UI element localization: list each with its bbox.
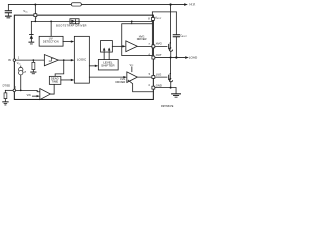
wire UV to LOGIC	[63, 41, 71, 43]
pin 7 HVG square	[152, 45, 155, 48]
op-amp HVG driver	[126, 41, 138, 52]
wire OUT	[153, 57, 185, 59]
node buffer out	[63, 59, 65, 61]
node rail-vcc	[34, 20, 36, 22]
ground (DT resistor)	[3, 101, 8, 103]
arrow LOAD	[185, 56, 189, 59]
svg-text:DRIVER: DRIVER	[115, 80, 125, 84]
wire HVG	[137, 45, 167, 47]
ground (IN pulldown)	[31, 71, 36, 73]
pin 6 OUT square	[152, 56, 155, 59]
svg-text:TIME: TIME	[51, 79, 58, 83]
transistor M1 high-side	[170, 5, 172, 44]
svg-text:LOAD: LOAD	[189, 55, 198, 59]
wire DT/SD	[5, 89, 13, 91]
wire dead time to LOGIC	[61, 79, 72, 81]
wire UV feed	[50, 21, 52, 36]
resistor DT external	[4, 90, 6, 93]
svg-text:GND: GND	[156, 83, 162, 87]
svg-text:LVG: LVG	[156, 73, 161, 77]
wire Vcc pin drop	[34, 5, 36, 22]
buffer input comparator (schmitt)	[44, 55, 58, 66]
wire VBOOT pin	[151, 12, 153, 24]
inner floating-well rectangle	[122, 24, 153, 56]
wire level shifter pulse lines	[103, 49, 105, 60]
svg-text:OUT: OUT	[156, 53, 162, 57]
arrow HV	[184, 3, 188, 6]
svg-text:DRIVER: DRIVER	[137, 37, 147, 41]
node IN-pulldown	[32, 59, 34, 61]
wire to comparator top input	[37, 90, 40, 91]
wire Vcc stub LVG driver	[131, 67, 133, 72]
svg-text:LOGIC: LOGIC	[77, 57, 87, 61]
wire LVG	[137, 76, 167, 78]
wire VTH reference input	[32, 95, 37, 97]
svg-text:D97IN547E: D97IN547E	[161, 105, 174, 108]
IC boundary	[14, 15, 153, 99]
ground (zener)	[29, 41, 34, 43]
pin 2 VCC square	[34, 14, 37, 17]
current source 50uA	[20, 66, 22, 67]
svg-text:VIN: VIN	[27, 94, 31, 97]
capacitor Vcc decoupling	[7, 5, 9, 11]
node OUT mosfet	[170, 57, 172, 59]
svg-text:DT/SD: DT/SD	[3, 85, 11, 88]
node DT/SD current source	[20, 89, 22, 91]
DT/SD input terminal	[13, 89, 16, 92]
wire LOGIC to LVG driver	[89, 76, 124, 78]
wire GND	[153, 87, 176, 89]
node rail-uv	[50, 20, 52, 22]
svg-text:H.V.: H.V.	[190, 3, 196, 7]
wire LOGIC to LEVEL SHIFTER	[89, 65, 95, 67]
node HV junction	[169, 3, 171, 5]
svg-text:BOOTSTRAP DRIVER: BOOTSTRAP DRIVER	[56, 24, 87, 27]
wire buffer to dead time	[55, 60, 64, 76]
zener clamp diode	[30, 34, 34, 36]
svg-text:HVG: HVG	[156, 42, 162, 46]
ground (left cap)	[6, 15, 12, 17]
node OUT cboot	[175, 56, 177, 58]
transistor M2 low-side	[170, 58, 172, 74]
DEAD TIME block	[49, 76, 61, 84]
pin 8 VBOOT square	[151, 18, 154, 21]
wire bootstrap out	[79, 20, 152, 22]
wire latch to HVG driver	[112, 45, 123, 47]
resistor IN pulldown	[32, 60, 34, 62]
wire zener branch	[30, 21, 32, 34]
LEVEL SHIFTER block	[98, 59, 118, 70]
ground (power)	[172, 93, 181, 95]
wire IN	[16, 59, 45, 61]
wire to ground	[175, 88, 177, 94]
latch block	[101, 41, 113, 53]
BOOTSTRAP DRIVER block	[70, 19, 79, 24]
resistor Rsupply	[71, 3, 81, 6]
diode bootstrap	[70, 20, 79, 22]
wire buffer out	[58, 59, 71, 61]
node floating rail	[131, 20, 133, 22]
pin 5 LVG square	[152, 76, 155, 79]
comparator shutdown	[40, 89, 51, 100]
hysteresis glyph	[49, 58, 54, 61]
UV DETECTION block	[39, 36, 63, 46]
wire LVG driver gnd return	[128, 80, 153, 92]
wire comparator out to dead time	[50, 84, 54, 94]
wire internal Vcc rail	[31, 20, 70, 22]
IN input terminal	[13, 59, 16, 62]
wire HV rail top	[8, 4, 71, 6]
op-amp LVG driver	[127, 72, 138, 83]
node Vcc rail junction	[34, 4, 36, 6]
LOGIC block	[74, 36, 89, 83]
capacitor CBOOT	[175, 12, 177, 35]
node GND mosfet	[170, 87, 172, 89]
svg-text:IN: IN	[8, 58, 11, 62]
svg-text:SHIFTER: SHIFTER	[101, 64, 115, 68]
pin 4 GND square	[152, 86, 155, 89]
svg-text:DETECTION: DETECTION	[43, 41, 59, 44]
